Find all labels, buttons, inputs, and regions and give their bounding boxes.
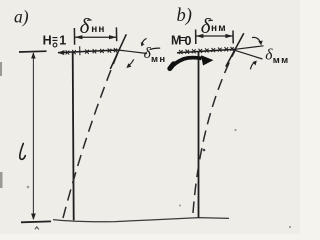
dimension delta_HH: left arrowhead bbox=[75, 35, 83, 39]
rotated head line a (down-right from intersection) bbox=[119, 50, 147, 53]
column b (original axis) bbox=[198, 52, 200, 218]
ground base line bbox=[53, 218, 229, 222]
moment arrow tail flare bbox=[170, 64, 174, 69]
moment arrowhead bbox=[201, 55, 213, 65]
force arrowhead (left end of top line a) bbox=[57, 50, 64, 55]
deflected axis b (dashed) bbox=[193, 50, 235, 213]
dimension delta_HH: right arrowhead bbox=[109, 35, 117, 39]
svg-text:a): a) bbox=[14, 7, 29, 27]
small circle under equals bbox=[53, 43, 57, 47]
dimension delta_HM: line bbox=[196, 35, 233, 37]
tangent line at deflected top b bbox=[226, 33, 244, 66]
lower arc arrow (angle MM) bbox=[250, 62, 254, 69]
top line b bbox=[177, 49, 236, 53]
extension of top line b (up-right) bbox=[236, 46, 264, 49]
dimension delta_HM: left tick bbox=[195, 30, 197, 45]
column a (original axis) bbox=[73, 52, 74, 221]
hatch marks on top line b bbox=[179, 47, 234, 54]
rotated head line b (down-right) bbox=[235, 50, 262, 59]
scan noise specks bbox=[0, 62, 291, 228]
tangent line at deflected top a bbox=[110, 34, 126, 69]
dimension delta_HH: line bbox=[75, 36, 117, 38]
dimension delta_HH: right tick bbox=[115, 27, 117, 41]
small caret mark under base bbox=[35, 227, 39, 230]
dimension delta_HH: left tick bbox=[73, 28, 75, 45]
top line a bbox=[58, 50, 119, 53]
dimension l: top arrowhead bbox=[31, 52, 36, 58]
lower hook arrow (angle MH) bbox=[129, 59, 134, 65]
dimension delta_HM: right arrowhead bbox=[225, 34, 233, 38]
upper arc arrow (angle MM) bbox=[252, 37, 260, 42]
upper hook arrow (angle MH) bbox=[142, 38, 147, 44]
label l (script ell) bbox=[20, 144, 26, 160]
dimension delta_HM: right tick bbox=[232, 31, 234, 44]
deflected axis a (dashed) bbox=[63, 50, 119, 218]
dimension l: bottom arrowhead bbox=[31, 214, 36, 221]
svg-text:нн: нн bbox=[91, 24, 105, 35]
svg-text:мн: мн bbox=[151, 54, 166, 65]
svg-text:нм: нм bbox=[211, 23, 227, 34]
svg-text:H: H bbox=[43, 34, 52, 48]
svg-text:1: 1 bbox=[59, 34, 66, 48]
svg-text:мм: мм bbox=[273, 55, 290, 66]
svg-text:b): b) bbox=[177, 6, 192, 26]
dimension delta_HM: left arrowhead bbox=[196, 34, 204, 38]
moment arrow (bold curved, clockwise) bbox=[170, 58, 202, 69]
svg-text:δ: δ bbox=[80, 14, 91, 38]
dimension l: top tick bbox=[19, 50, 47, 53]
hatch marks on top line a bbox=[66, 46, 117, 55]
dimension l: vertical line bbox=[32, 53, 34, 219]
svg-text:0: 0 bbox=[185, 34, 192, 48]
dimension l: bottom tick bbox=[21, 220, 51, 223]
